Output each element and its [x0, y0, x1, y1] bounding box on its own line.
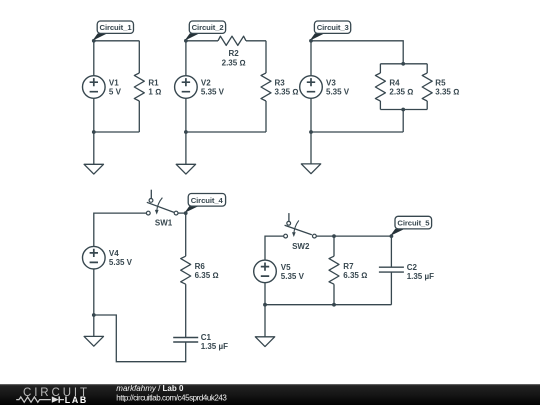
- junction: parallel top node: [401, 62, 405, 66]
- svg-text:5.35 V: 5.35 V: [201, 88, 225, 97]
- svg-text:R2: R2: [228, 49, 239, 58]
- svg-text:6.35 Ω: 6.35 Ω: [343, 271, 367, 280]
- svg-text:SW2: SW2: [292, 242, 310, 251]
- ground (circuit 3): [301, 164, 320, 174]
- wire: node down to C2: [390, 236, 392, 305]
- svg-text:R5: R5: [435, 79, 446, 88]
- svg-text:V3: V3: [326, 79, 336, 88]
- wire: circuit 3 right down lead: [402, 110, 404, 133]
- svg-text:V5: V5: [281, 263, 291, 272]
- wire: circuit 3 ground lead: [310, 132, 312, 164]
- wire: SW2 left to V5 column: [265, 236, 284, 305]
- junction: circuit 3 bottom node: [309, 130, 313, 134]
- wire: circuit 1 bottom: [94, 131, 140, 133]
- wire: circuit 1 ground lead: [93, 132, 95, 164]
- svg-text:LAB: LAB: [65, 395, 88, 405]
- resistor R2: [218, 36, 246, 67]
- wire: SW1 right to node: [178, 212, 186, 214]
- junction: circuit 4 left node: [92, 313, 96, 317]
- ground (circuit 2): [176, 164, 195, 174]
- wire: R4 leads: [379, 64, 381, 110]
- svg-text:http://circuitlab.com/c45sprd4: http://circuitlab.com/c45sprd4uk243: [116, 394, 227, 403]
- wire: SW2 right to node (through R7 junction): [316, 235, 391, 237]
- junction: circuit 1 bottom node: [92, 130, 96, 134]
- ground (circuit 4): [84, 336, 103, 346]
- capacitor C2: [379, 263, 434, 281]
- svg-text:5 V: 5 V: [109, 88, 122, 97]
- svg-text:C1: C1: [201, 333, 212, 342]
- node Circuit_5 flag: [390, 216, 432, 238]
- svg-text:V2: V2: [201, 79, 211, 88]
- wire: circuit 3 left branch (node to V3 to bottom): [310, 41, 312, 132]
- svg-text:R3: R3: [275, 79, 286, 88]
- resistor R4: [375, 73, 413, 101]
- svg-text:markfahmy / Lab 0: markfahmy / Lab 0: [116, 384, 184, 393]
- capacitor C1: [173, 333, 228, 351]
- voltage source V2: [175, 76, 225, 99]
- svg-text:Circuit_4: Circuit_4: [191, 196, 224, 205]
- switch SW2: [284, 213, 317, 251]
- svg-text:R1: R1: [148, 79, 159, 88]
- ground (circuit 1): [84, 164, 103, 174]
- junction: circuit 5 left bottom node: [263, 303, 267, 307]
- svg-text:5.35 V: 5.35 V: [281, 272, 305, 281]
- wire: circuit 1 right branch (R1 leads): [138, 41, 140, 132]
- switch SW1: [146, 190, 178, 228]
- svg-text:1.35 µF: 1.35 µF: [407, 272, 434, 281]
- wire: SW1 left to V4 column: [94, 213, 146, 315]
- junction: circuit 2 bottom node: [184, 130, 188, 134]
- node Circuit_3 flag: [309, 21, 351, 43]
- svg-text:SW1: SW1: [155, 218, 173, 227]
- voltage source V1: [83, 76, 122, 99]
- node Circuit_4 flag: [184, 194, 226, 216]
- junction: parallel bottom node: [401, 108, 405, 112]
- wire: R7 leads: [333, 236, 335, 305]
- svg-text:V1: V1: [109, 79, 119, 88]
- wire: node down to R6: [185, 213, 187, 256]
- voltage source V3: [300, 76, 350, 99]
- wire: circuit 1 left branch (node to V1 to bottom): [93, 41, 95, 132]
- svg-text:C2: C2: [407, 263, 418, 272]
- svg-text:V4: V4: [109, 249, 119, 258]
- wire: circuit 2 bottom: [186, 131, 266, 133]
- svg-text:2.35 Ω: 2.35 Ω: [222, 58, 246, 67]
- svg-text:2.35 Ω: 2.35 Ω: [389, 88, 413, 97]
- footer bar: [0, 384, 540, 405]
- wire: parallel bracket bottom bar: [380, 109, 427, 111]
- svg-text:6.35 Ω: 6.35 Ω: [195, 271, 219, 280]
- wire: circuit 4 bottom return (junction to C1 bottom): [94, 315, 186, 362]
- resistor R5: [422, 73, 459, 101]
- junction: R7 bottom node: [332, 303, 336, 307]
- svg-text:5.35 V: 5.35 V: [109, 258, 133, 267]
- svg-text:3.35 Ω: 3.35 Ω: [435, 88, 459, 97]
- wire: R6 to C1: [185, 284, 187, 337]
- wire: circuit 4 ground lead: [93, 315, 95, 336]
- CircuitLab logo: [16, 387, 90, 405]
- svg-text:Circuit_1: Circuit_1: [100, 23, 133, 32]
- wire: circuit 3 bottom: [311, 131, 403, 133]
- node Circuit_1 flag: [92, 21, 134, 43]
- wire: circuit 2 top (to R2 and to right column): [186, 40, 266, 42]
- wire: parallel bracket top bar: [380, 63, 427, 65]
- resistor R1: [134, 73, 161, 101]
- svg-text:1.35 µF: 1.35 µF: [201, 342, 228, 351]
- voltage source V5: [254, 260, 305, 283]
- wire: circuit 5 ground lead: [264, 305, 266, 337]
- footer text: [116, 384, 227, 403]
- resistor R6: [181, 256, 219, 284]
- voltage source V4: [83, 246, 133, 269]
- svg-text:R6: R6: [195, 262, 206, 271]
- svg-text:1 Ω: 1 Ω: [148, 88, 161, 97]
- wire: circuit 5 bottom: [265, 304, 391, 306]
- node Circuit_2 flag: [184, 21, 226, 43]
- wire: circuit 2 ground lead: [185, 132, 187, 164]
- resistor R7: [329, 256, 367, 284]
- svg-text:Circuit_5: Circuit_5: [397, 219, 430, 228]
- svg-text:R4: R4: [389, 79, 400, 88]
- ground (circuit 5): [255, 337, 274, 347]
- svg-text:R7: R7: [343, 262, 354, 271]
- svg-text:Circuit_3: Circuit_3: [317, 23, 349, 32]
- wire: circuit 2 right branch (R3 leads): [265, 41, 267, 132]
- svg-text:Circuit_2: Circuit_2: [192, 23, 224, 32]
- resistor R3: [261, 73, 298, 101]
- wire: circuit 3 top: [311, 41, 403, 64]
- svg-text:3.35 Ω: 3.35 Ω: [275, 88, 299, 97]
- wire: circuit 2 left branch (node to V2 to bottom): [185, 41, 187, 132]
- junction: R7 top node: [332, 234, 336, 238]
- svg-text:5.35 V: 5.35 V: [326, 88, 350, 97]
- wire: circuit 1 top: [94, 40, 140, 42]
- wire: R5 leads: [426, 64, 428, 110]
